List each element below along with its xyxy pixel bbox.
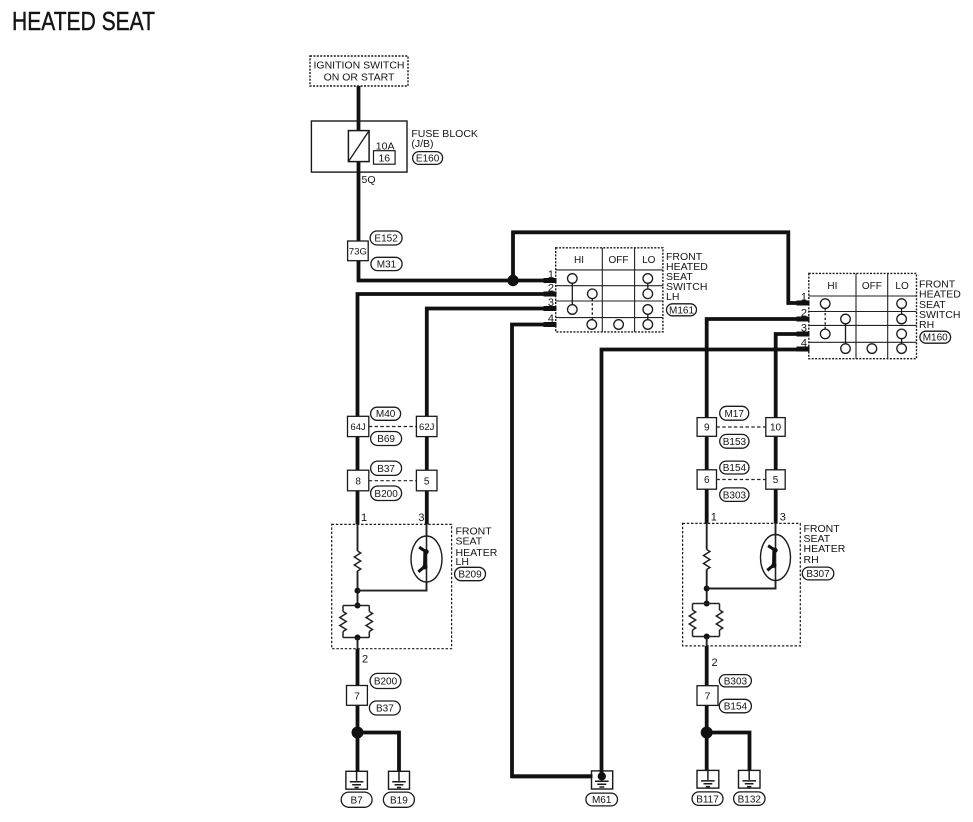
svg-text:OFF: OFF bbox=[609, 255, 629, 266]
wire: branch to B19 ground bbox=[358, 733, 400, 780]
resistor: heater element RH bbox=[704, 550, 710, 570]
svg-text:ON OR START: ON OR START bbox=[324, 72, 395, 84]
connector E160 bbox=[413, 152, 443, 165]
fuse block box E160 bbox=[311, 121, 478, 186]
wire: RH switch pin 4 down to ground M61 bbox=[602, 350, 810, 772]
fuse 10A #16 bbox=[348, 131, 369, 162]
svg-text:16: 16 bbox=[378, 153, 390, 165]
svg-text:B209: B209 bbox=[458, 570, 482, 581]
svg-text:B154: B154 bbox=[724, 702, 748, 713]
svg-text:B303: B303 bbox=[724, 676, 748, 687]
svg-text:HEATED SEAT: HEATED SEAT bbox=[12, 6, 155, 36]
svg-text:M31: M31 bbox=[377, 260, 397, 271]
connector 8 / 5 (B37 / B200) bbox=[348, 461, 438, 500]
resistor: right of pair bbox=[716, 610, 722, 630]
svg-text:1: 1 bbox=[711, 512, 717, 524]
svg-text:M40: M40 bbox=[376, 409, 396, 420]
wire: RH switch pin 3 down to RH heater pin 3 bbox=[776, 334, 810, 523]
svg-text:2: 2 bbox=[362, 654, 368, 666]
svg-text:E160: E160 bbox=[416, 153, 440, 164]
parallel resistor loop RH bbox=[693, 604, 720, 637]
svg-text:10: 10 bbox=[770, 423, 782, 434]
node: junction to thermostat bbox=[355, 588, 361, 594]
svg-text:1: 1 bbox=[548, 269, 554, 281]
svg-text:2: 2 bbox=[548, 283, 554, 295]
svg-text:9: 9 bbox=[704, 423, 710, 434]
svg-text:5: 5 bbox=[424, 476, 430, 487]
front seat heater RH B307 bbox=[683, 512, 846, 670]
svg-text:B69: B69 bbox=[377, 434, 395, 445]
RH switch pin stubs bbox=[797, 303, 810, 349]
node: junction to thermostat bbox=[704, 586, 710, 592]
svg-text:B117: B117 bbox=[696, 794, 719, 805]
svg-text:M17: M17 bbox=[724, 409, 744, 420]
svg-text:3: 3 bbox=[418, 512, 424, 524]
svg-text:LH: LH bbox=[456, 556, 469, 568]
wire: RH switch pin 2 down to RH heater pin 1 bbox=[707, 319, 810, 523]
wire: junction up and over to RH switch pin 1 bbox=[513, 232, 810, 303]
thermostat ellipse LH bbox=[411, 536, 442, 582]
svg-text:RH: RH bbox=[804, 554, 819, 566]
node: RH ground split bbox=[701, 727, 713, 739]
svg-text:M61: M61 bbox=[592, 795, 612, 806]
svg-text:B200: B200 bbox=[374, 677, 398, 688]
svg-text:HI: HI bbox=[827, 281, 837, 292]
svg-text:4: 4 bbox=[801, 338, 807, 350]
connector 7 (B303 / B154) RH bbox=[697, 675, 751, 713]
resistor: left of pair bbox=[689, 610, 695, 630]
wire: LH heater pin 2 down to grounds B7/B19 bbox=[356, 649, 360, 779]
connector 7 (B200 / B37) LH bbox=[347, 673, 401, 715]
wire: RH heater pin 2 down to grounds B117/B132 bbox=[705, 646, 709, 778]
ground B7 bbox=[341, 771, 372, 807]
LH switch contacts bbox=[568, 274, 653, 330]
connector 9 / 10 (M17 / B153) bbox=[697, 406, 785, 448]
svg-text:73G: 73G bbox=[349, 247, 367, 258]
svg-text:(J/B): (J/B) bbox=[411, 138, 433, 150]
ground B117 bbox=[692, 770, 723, 805]
node: bottom of parallel resistors bbox=[355, 635, 361, 641]
ground B132 bbox=[734, 770, 765, 805]
svg-text:7: 7 bbox=[354, 691, 360, 703]
svg-text:62J: 62J bbox=[419, 422, 435, 433]
svg-text:LO: LO bbox=[642, 255, 656, 266]
svg-text:2: 2 bbox=[801, 308, 807, 320]
svg-text:4: 4 bbox=[548, 313, 554, 325]
front heated seat switch RH M160 bbox=[797, 273, 962, 358]
node: top of parallel resistors bbox=[704, 601, 710, 607]
svg-text:8: 8 bbox=[355, 476, 361, 487]
svg-text:B132: B132 bbox=[738, 794, 762, 805]
svg-text:M161: M161 bbox=[669, 305, 694, 316]
ground M61 bbox=[512, 771, 618, 806]
wire: branch to B132 ground bbox=[707, 733, 750, 779]
connector 73G (E152 / M31) bbox=[348, 231, 403, 271]
wire: fuse to LH switch pin 1 run bbox=[359, 162, 557, 281]
svg-text:B37: B37 bbox=[376, 704, 394, 715]
connector 6 / 5 (B154 / B303) bbox=[697, 461, 785, 501]
resistor: heater element LH bbox=[354, 551, 360, 571]
thermostat ellipse RH bbox=[761, 535, 791, 581]
svg-text:B307: B307 bbox=[806, 569, 830, 580]
svg-text:1: 1 bbox=[801, 292, 807, 304]
svg-text:B154: B154 bbox=[723, 463, 747, 474]
svg-text:B303: B303 bbox=[723, 490, 747, 501]
node: LH ground split bbox=[352, 727, 364, 739]
svg-text:3: 3 bbox=[780, 512, 786, 524]
svg-text:HI: HI bbox=[574, 255, 584, 266]
node: top of parallel resistors bbox=[355, 603, 361, 609]
wire: ignition switch to fuse block bbox=[357, 86, 361, 131]
resistor: left of pair bbox=[340, 612, 346, 632]
svg-text:7: 7 bbox=[705, 691, 711, 703]
svg-text:5Q: 5Q bbox=[362, 174, 376, 186]
svg-text:B7: B7 bbox=[350, 796, 363, 807]
front heated seat switch LH M161 bbox=[544, 248, 709, 332]
front seat heater LH B209 bbox=[332, 512, 498, 666]
RH switch contacts bbox=[820, 299, 906, 354]
svg-text:LO: LO bbox=[895, 281, 909, 292]
parallel resistor loop LH bbox=[343, 606, 369, 638]
svg-text:B200: B200 bbox=[374, 489, 398, 500]
svg-text:IGNITION SWITCH: IGNITION SWITCH bbox=[314, 60, 405, 72]
ground B19 bbox=[383, 771, 414, 807]
svg-text:5: 5 bbox=[773, 475, 779, 486]
svg-text:B19: B19 bbox=[390, 796, 408, 807]
LH switch pin stubs bbox=[544, 281, 557, 325]
svg-text:3: 3 bbox=[801, 323, 807, 335]
wire: thermostat return bbox=[358, 524, 427, 590]
svg-text:OFF: OFF bbox=[862, 281, 882, 292]
svg-text:B37: B37 bbox=[377, 464, 395, 475]
svg-text:B153: B153 bbox=[723, 437, 747, 448]
svg-text:1: 1 bbox=[361, 512, 367, 524]
svg-text:E152: E152 bbox=[374, 234, 398, 245]
wire: LH switch pin 2 down to LH heater pin 1 bbox=[358, 294, 557, 524]
svg-text:6: 6 bbox=[704, 475, 710, 486]
wire: LH switch pin 3 down to LH heater pin 3 bbox=[427, 309, 556, 525]
svg-text:LH: LH bbox=[666, 291, 679, 303]
resistor: right of pair bbox=[366, 612, 372, 632]
heater element wire pin1 down bbox=[357, 524, 359, 551]
svg-text:M160: M160 bbox=[923, 333, 948, 344]
svg-text:2: 2 bbox=[712, 657, 718, 669]
ignition switch source box bbox=[310, 56, 408, 86]
wire: thermostat return bbox=[707, 523, 776, 588]
svg-text:64J: 64J bbox=[350, 422, 366, 433]
svg-text:SEAT: SEAT bbox=[456, 536, 483, 548]
connector 64J / 62J (M40 / B69) bbox=[348, 407, 438, 445]
node: bottom of parallel resistors bbox=[704, 634, 710, 640]
svg-text:3: 3 bbox=[548, 297, 554, 309]
node: junction on pin-1 wire bbox=[507, 275, 518, 286]
wire: LH switch pin 4 down to ground M61 bbox=[512, 325, 592, 777]
svg-text:RH: RH bbox=[919, 319, 934, 331]
